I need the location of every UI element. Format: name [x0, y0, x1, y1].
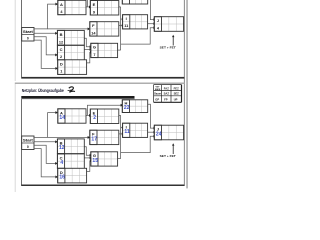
bottom slide wire B to G	[84, 147, 92, 157]
slide 2 diagram frame bottom border	[21, 185, 184, 187]
svg-text:24: 24	[156, 131, 162, 137]
activity box B (bottom slide)	[57, 139, 84, 154]
bottom slide wire bus to I	[121, 126, 125, 129]
top slide wire D to G	[87, 51, 93, 63]
svg-text:A: A	[60, 2, 63, 7]
bottom slide wire F to I	[119, 132, 125, 135]
top slide wire F to I	[119, 24, 125, 27]
start node (top slide)	[22, 28, 34, 42]
slide 2 diagram frame left border	[20, 99, 23, 186]
svg-text:0: 0	[27, 145, 29, 149]
legend table (Vorgang/FAZ/FEZ, Dauer/SAZ/SEZ, GP/FP/UP)	[154, 85, 182, 103]
activity box C (top slide)	[57, 45, 84, 60]
bottom slide wire start to A and to F	[34, 111, 90, 139]
activity box E (bottom slide)	[90, 109, 119, 124]
top slide wire start to C	[34, 37, 58, 57]
activity box J (top slide)	[154, 17, 183, 32]
svg-text:B: B	[60, 32, 63, 37]
svg-text:Start: Start	[23, 30, 34, 34]
activity box J (bottom slide)	[154, 125, 183, 140]
bottom slide wire A branch to H	[87, 104, 123, 116]
svg-text:gang: gang	[155, 89, 161, 91]
activity box G (top slide)	[91, 43, 118, 57]
page right edge	[183, 0, 186, 186]
svg-text:G: G	[93, 45, 96, 50]
svg-text:7: 7	[93, 53, 95, 57]
bottom slide vertical bus joining E F G outputs	[120, 115, 122, 158]
svg-text:11: 11	[124, 129, 130, 135]
slide 1 diagram frame left border	[20, 0, 23, 77]
bottom slide wire D to G	[87, 159, 93, 171]
svg-text:12: 12	[59, 40, 63, 44]
activity box B (top slide)	[57, 30, 84, 45]
activity box I (bottom slide)	[123, 123, 148, 137]
activity box D (top slide)	[58, 60, 87, 75]
bottom slide wire H to J	[148, 104, 156, 129]
window/scrollbar grey line	[186, 0, 188, 188]
bottom slide wire C to G	[84, 156, 92, 159]
svg-text:Start: Start	[23, 138, 34, 142]
svg-text:11: 11	[124, 24, 128, 28]
slide 2 diagram frame top border (short stub right of title bar)	[21, 98, 135, 101]
bottom slide wire E to bus	[119, 114, 121, 116]
bottom slide wire start to C	[34, 145, 58, 165]
activity box H (bottom slide)	[122, 100, 147, 113]
top slide wire G to bus	[118, 49, 121, 51]
title underline bar	[21, 96, 134, 99]
activity box E (top slide)	[90, 1, 119, 16]
page 2 left edge	[14, 84, 17, 192]
top slide wire start to A and to F	[34, 3, 90, 31]
top slide wire I to J	[148, 22, 156, 25]
svg-text:D: D	[60, 61, 63, 66]
page 1 left edge	[14, 0, 17, 81]
svg-text:I: I	[126, 16, 127, 21]
top slide wire start to B	[34, 32, 58, 35]
svg-text:2: 2	[93, 115, 96, 121]
SET + FET note with up arrow (top slide)	[160, 35, 177, 50]
top slide wire C to G	[84, 48, 92, 51]
svg-text:4: 4	[60, 160, 63, 166]
svg-text:E: E	[93, 2, 96, 7]
bottom slide wire start to D	[34, 149, 58, 179]
SET + FET note with up arrow (bottom slide)	[160, 143, 177, 158]
svg-text:J: J	[157, 18, 159, 23]
bottom slide wire A to E	[86, 114, 92, 117]
svg-text:12: 12	[59, 145, 65, 151]
activity box F (top slide)	[90, 22, 119, 36]
svg-text:14: 14	[59, 115, 65, 121]
top slide wire A to E	[86, 5, 92, 8]
top slide wire bus to I	[121, 18, 125, 21]
page separator line	[15, 83, 185, 84]
activity box H (top slide)	[122, 0, 147, 4]
bottom slide wire start to B	[34, 140, 58, 143]
top slide wire A branch to H	[87, 0, 123, 7]
activity box F (bottom slide)	[90, 130, 119, 144]
svg-text:16: 16	[59, 174, 65, 180]
top slide wire bus to J lower input	[121, 26, 156, 44]
activity box D (bottom slide)	[58, 168, 87, 183]
svg-text:22: 22	[124, 105, 130, 111]
bottom slide wire bus to J lower input	[121, 135, 156, 153]
bottom slide wire I to J	[148, 131, 156, 134]
svg-text:1: 1	[60, 70, 62, 74]
slide 1 diagram frame bottom	[21, 77, 184, 79]
title icon squiggle	[68, 87, 75, 92]
top slide wire H to J	[148, 0, 156, 21]
start node (bottom slide)	[22, 136, 34, 150]
slide 2 title: Netzplan: Uebungsaufgabe	[22, 88, 65, 93]
activity box C (bottom slide)	[57, 154, 84, 169]
activity box G (bottom slide)	[91, 152, 118, 166]
svg-text:SET + FET: SET + FET	[160, 154, 177, 158]
svg-text:C: C	[60, 47, 63, 52]
activity box A (top slide)	[58, 0, 86, 14]
top slide wire E to bus	[119, 6, 121, 8]
bottom slide wire G to bus	[118, 158, 121, 160]
svg-text:Vor-: Vor-	[155, 87, 160, 89]
activity box A (bottom slide)	[58, 109, 86, 123]
top slide wire B to G	[84, 38, 92, 48]
activity box I (top slide)	[123, 15, 148, 29]
svg-text:SET + FET: SET + FET	[160, 45, 177, 49]
svg-text:15: 15	[92, 158, 98, 164]
top slide wire start to D	[34, 40, 58, 70]
svg-text:0: 0	[27, 37, 29, 41]
svg-text:Netzplan: Übungsaufgabe: Netzplan: Übungsaufgabe	[22, 88, 65, 93]
svg-text:2: 2	[60, 55, 62, 59]
svg-text:17: 17	[91, 136, 97, 142]
svg-text:Dauer: Dauer	[154, 93, 161, 96]
svg-text:9: 9	[93, 10, 95, 14]
top slide vertical bus joining E F G outputs	[120, 7, 122, 50]
